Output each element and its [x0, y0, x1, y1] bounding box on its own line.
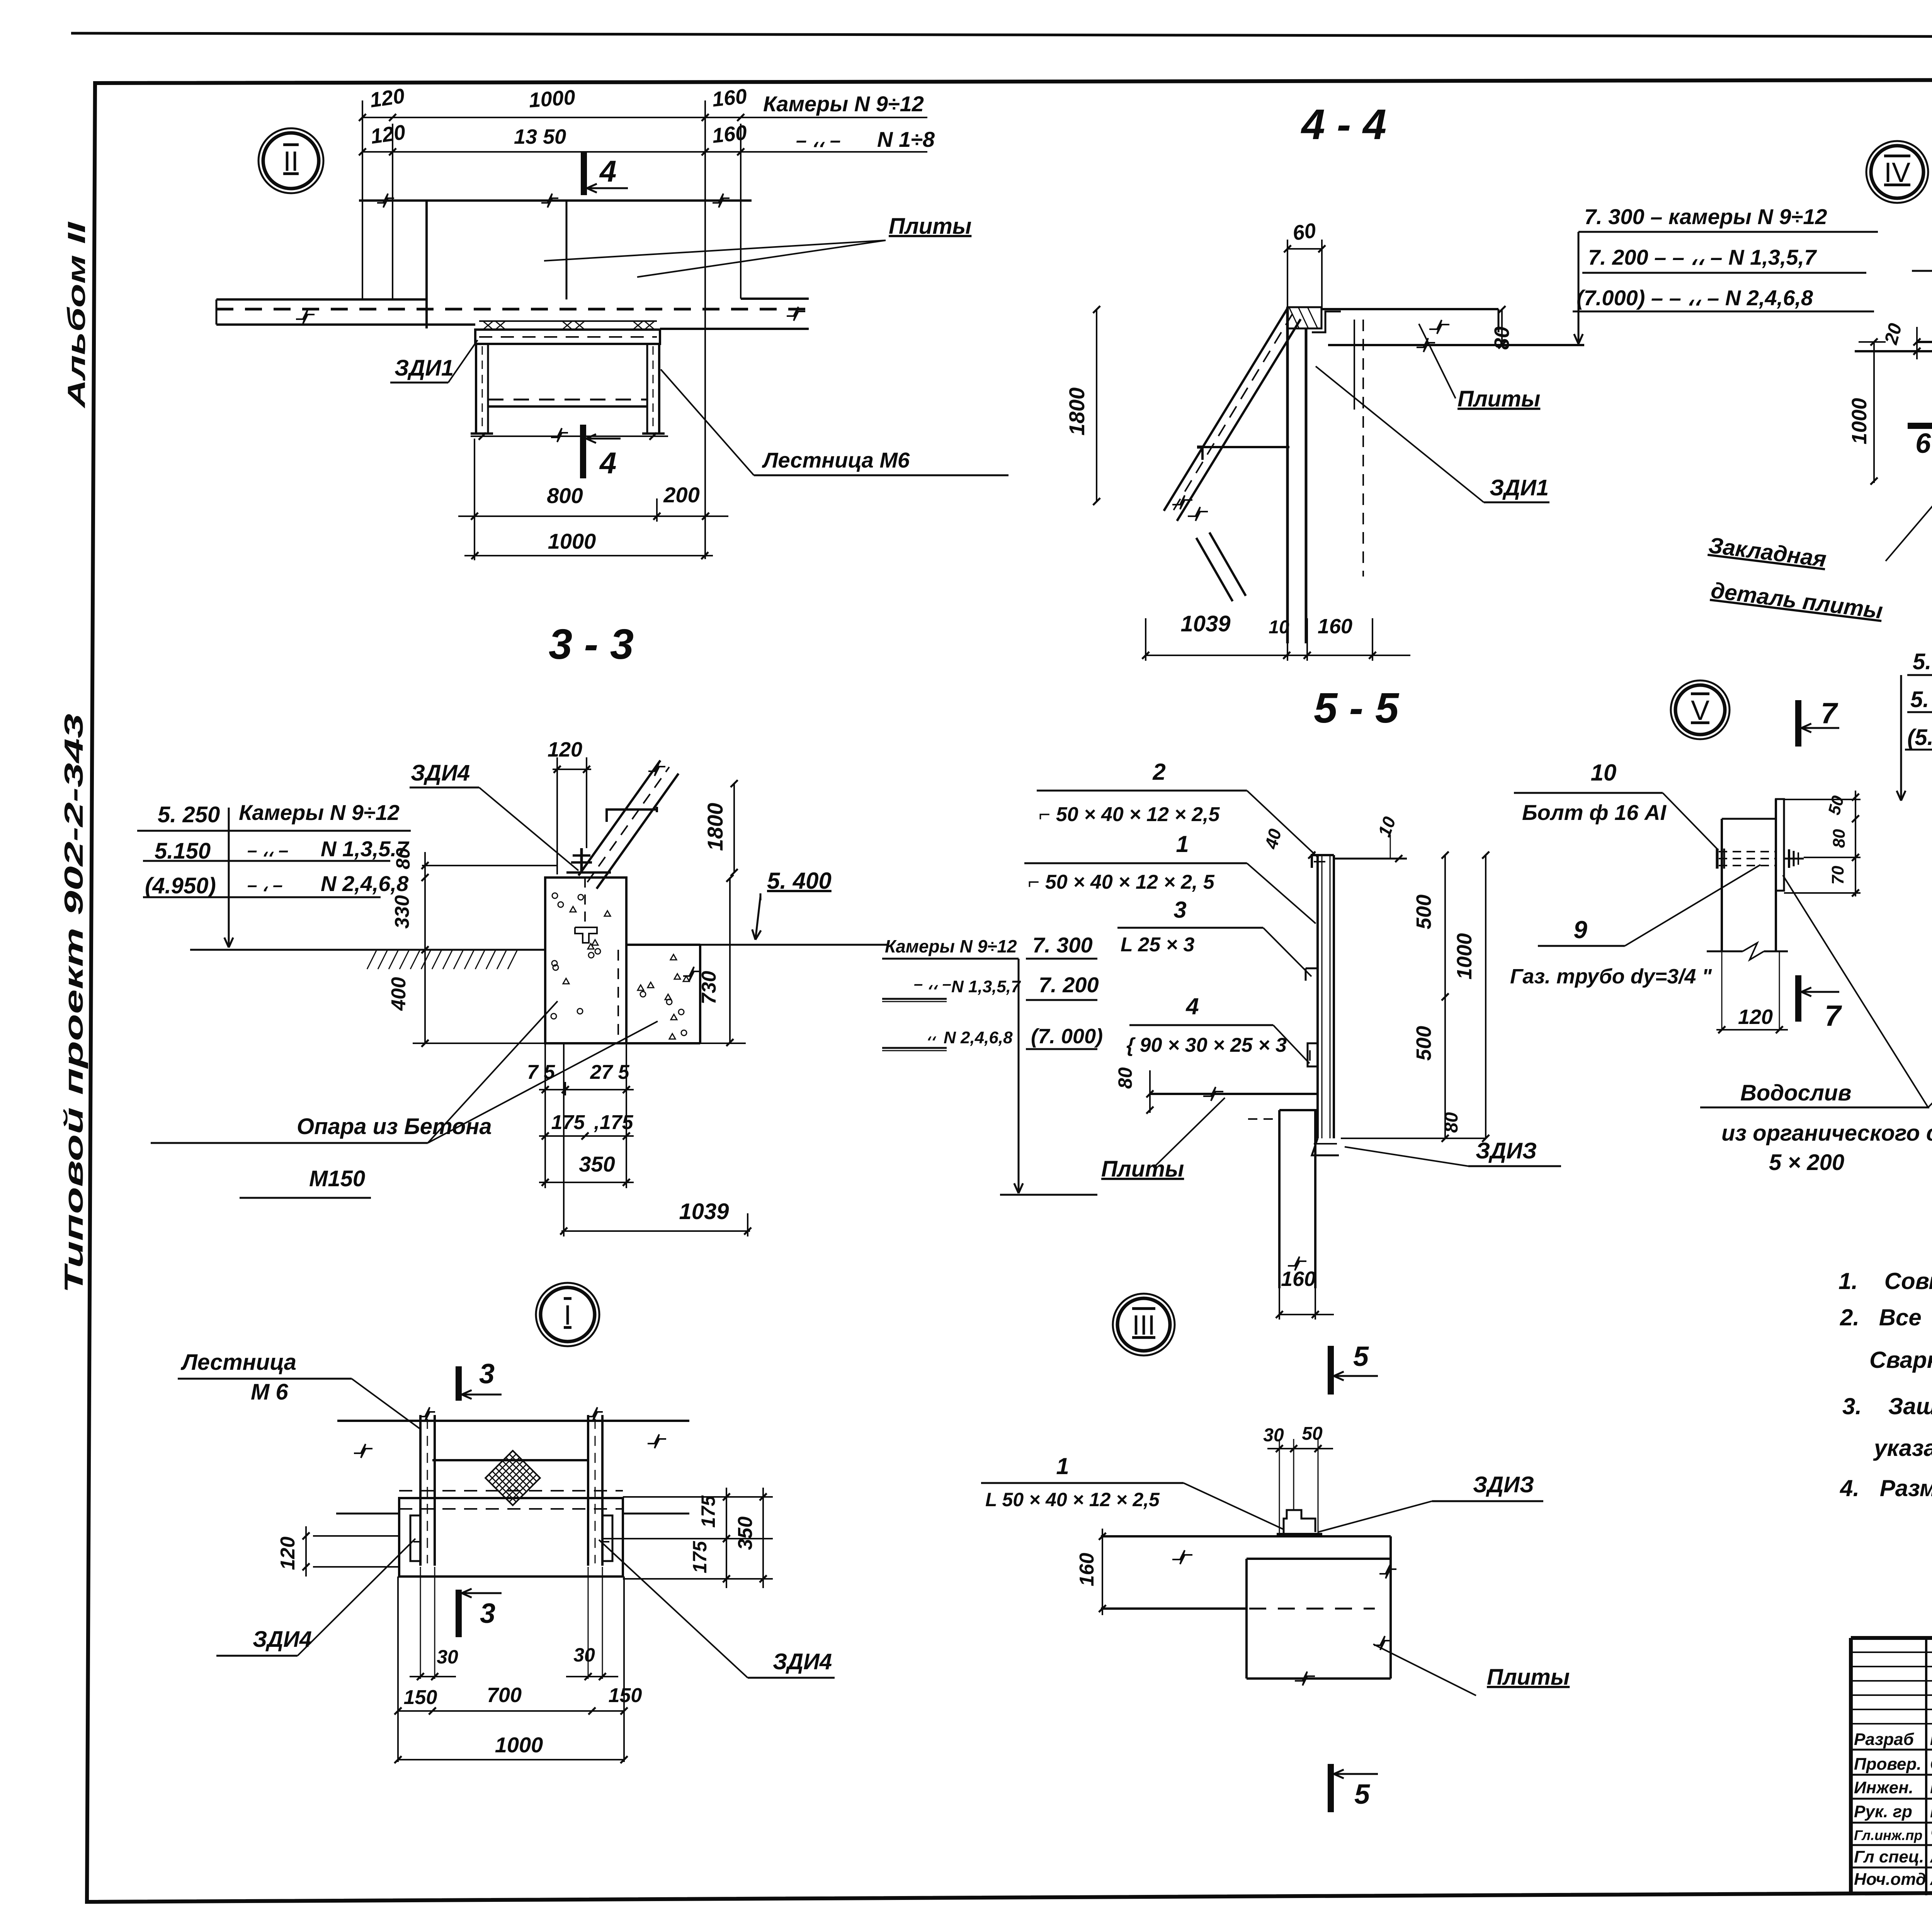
svg-text:2: 2	[1152, 759, 1165, 785]
svg-text:150: 150	[404, 1686, 437, 1709]
svg-text:120: 120	[277, 1537, 299, 1570]
svg-text:ЗДИ1: ЗДИ1	[1490, 475, 1549, 500]
svg-text:⌐ 50 × 40 × 12 × 2, 5: ⌐ 50 × 40 × 12 × 2, 5	[1028, 871, 1215, 893]
svg-text:10: 10	[1269, 617, 1289, 638]
svg-text:150: 150	[609, 1684, 642, 1707]
svg-text:3: 3	[480, 1598, 495, 1629]
svg-text:160: 160	[1318, 615, 1352, 638]
svg-text:10: 10	[1591, 760, 1617, 786]
svg-text:N 1÷8: N 1÷8	[877, 127, 935, 151]
svg-text:2. Все сворные швы h= 3: 2. Все сворные швы h= 3 мм	[1840, 1304, 1932, 1330]
svg-text:Камеры N 9÷12: Камеры N 9÷12	[763, 92, 924, 116]
svg-text:Семенова: Семенова	[1930, 1755, 1932, 1774]
svg-text:7: 7	[1825, 1000, 1842, 1032]
svg-text:30: 30	[573, 1644, 595, 1666]
svg-text:Болт ф 16 АІ: Болт ф 16 АІ	[1522, 800, 1667, 825]
svg-text:400: 400	[388, 977, 410, 1011]
svg-text:1: 1	[1056, 1453, 1069, 1479]
svg-text:1000: 1000	[1453, 933, 1476, 980]
svg-text:7 5: 7 5	[527, 1061, 555, 1083]
svg-text:175: 175	[689, 1541, 711, 1573]
svg-text:N 2,4,6,8: N 2,4,6,8	[321, 871, 409, 896]
svg-text:V: V	[1691, 695, 1709, 726]
svg-text:7. 300: 7. 300	[1032, 933, 1093, 957]
svg-text:Камеры N 9÷12: Камеры N 9÷12	[885, 936, 1017, 956]
svg-text:1800: 1800	[703, 803, 727, 851]
svg-text:(4.950): (4.950)	[145, 873, 216, 898]
svg-text:160: 160	[1281, 1267, 1316, 1291]
svg-text:4: 4	[599, 154, 616, 188]
svg-text:1800: 1800	[1065, 388, 1089, 436]
svg-text:М 6: М 6	[251, 1379, 288, 1405]
svg-text:Типовой проект 902-2-343: Типовой проект 902-2-343	[59, 714, 88, 1293]
svg-text:Чирков: Чирков	[1930, 1825, 1932, 1844]
svg-text:указания на л. КЖ- 7.: указания на л. КЖ- 7.	[1873, 1435, 1932, 1461]
svg-text:Лестница: Лестница	[180, 1350, 296, 1375]
svg-text:Сварку вести электродами: Сварку вести электродами Э-42, ГОСТ 9467…	[1869, 1347, 1932, 1373]
svg-text:1000: 1000	[548, 529, 596, 553]
svg-text:500: 500	[1412, 895, 1435, 929]
svg-text:3: 3	[479, 1359, 495, 1389]
svg-text:5 × 200: 5 × 200	[1769, 1150, 1844, 1175]
svg-text:7. 200 – – ،، – N 1,3,5,7: 7. 200 – – ،، – N 1,3,5,7	[1588, 245, 1817, 269]
svg-text:из органического стекла: из органического стекла	[1721, 1121, 1932, 1146]
svg-text:ЗДИ1: ЗДИ1	[395, 355, 454, 381]
svg-text:1000: 1000	[528, 86, 576, 112]
svg-text:(5.500): (5.500)	[1907, 725, 1932, 750]
svg-text:800: 800	[547, 483, 583, 508]
svg-text:(7.000) – – ،، – N 2,4,6,8: (7.000) – – ،، – N 2,4,6,8	[1577, 286, 1813, 310]
svg-text:Гл спец.: Гл спец.	[1854, 1847, 1924, 1866]
svg-text:350: 350	[734, 1517, 757, 1550]
svg-text:5: 5	[1353, 1341, 1369, 1372]
svg-text:II: II	[283, 146, 299, 177]
svg-text:Гл.инж.пр: Гл.инж.пр	[1854, 1827, 1922, 1843]
svg-text:330: 330	[391, 895, 413, 929]
svg-text:27 5: 27 5	[590, 1061, 629, 1083]
svg-text:3: 3	[1173, 897, 1186, 923]
svg-text:Разраб: Разраб	[1854, 1730, 1915, 1749]
svg-text:80: 80	[1441, 1112, 1462, 1133]
svg-text:N 2,4,6,8: N 2,4,6,8	[944, 1028, 1013, 1047]
svg-text:I: I	[564, 1300, 571, 1331]
svg-text:Плиты: Плиты	[889, 214, 971, 239]
svg-text:80: 80	[392, 848, 414, 869]
svg-text:Гарбуз: Гарбуз	[1930, 1802, 1932, 1821]
svg-text:ЗДИЗ: ЗДИЗ	[1476, 1138, 1537, 1163]
svg-text:Альтшуллер: Альтшуллер	[1930, 1870, 1932, 1889]
svg-text:7. 300 – камеры N 9÷12: 7. 300 – камеры N 9÷12	[1584, 204, 1827, 229]
svg-text:160: 160	[711, 121, 748, 148]
svg-text:13 50: 13 50	[514, 125, 566, 148]
svg-text:Рук. гр: Рук. гр	[1854, 1802, 1912, 1821]
svg-text:5.150: 5.150	[155, 838, 211, 864]
svg-text:1039: 1039	[679, 1199, 729, 1224]
svg-text:160: 160	[711, 85, 748, 111]
svg-text:Водослив: Водослив	[1740, 1080, 1851, 1105]
svg-text:Альбом II: Альбом II	[63, 221, 90, 409]
svg-text:Андрианов: Андрианов	[1930, 1847, 1932, 1866]
svg-text:,175: ,175	[594, 1111, 633, 1134]
svg-text:7. 200: 7. 200	[1039, 973, 1099, 997]
svg-text:80: 80	[1830, 829, 1849, 848]
svg-text:Плиты: Плиты	[1487, 1665, 1570, 1690]
svg-text:120: 120	[1738, 1005, 1773, 1029]
svg-text:5. 700: 5. 700	[1910, 687, 1932, 712]
svg-text:،،: ،،	[927, 1027, 936, 1044]
svg-text:50: 50	[1302, 1423, 1323, 1444]
svg-text:(7. 000): (7. 000)	[1031, 1025, 1103, 1048]
svg-text:6: 6	[1915, 428, 1931, 459]
svg-text:4: 4	[599, 446, 616, 480]
svg-text:60: 60	[1291, 219, 1318, 245]
svg-text:9: 9	[1573, 916, 1587, 944]
svg-text:80: 80	[1114, 1067, 1136, 1089]
svg-text:L 50 × 40 × 12 × 2,5: L 50 × 40 × 12 × 2,5	[985, 1489, 1160, 1510]
svg-text:Петропавловская: Петропавловская	[1930, 1733, 1932, 1748]
svg-text:⌐ 50 × 40 × 12 × 2,5: ⌐ 50 × 40 × 12 × 2,5	[1039, 803, 1220, 826]
svg-text:5 - 5: 5 - 5	[1314, 684, 1400, 732]
svg-text:Плиты: Плиты	[1101, 1156, 1184, 1182]
svg-text:3 - 3: 3 - 3	[549, 621, 634, 668]
svg-text:IV: IV	[1884, 157, 1910, 188]
svg-text:Камеры N 9÷12: Камеры N 9÷12	[239, 800, 400, 825]
svg-text:1000: 1000	[495, 1733, 543, 1757]
svg-text:Провер.: Провер.	[1854, 1755, 1921, 1774]
svg-text:Газ. трубо dy=3/4 ": Газ. трубо dy=3/4 "	[1510, 965, 1712, 988]
svg-text:– ،، –: – ،، –	[796, 129, 841, 151]
svg-text:– ، –: – ، –	[247, 875, 283, 895]
svg-text:ЗДИ4: ЗДИ4	[773, 1649, 832, 1674]
svg-text:Лестница М6: Лестница М6	[762, 448, 910, 472]
svg-text:4. Размеры в скобках для к: 4. Размеры в скобках для камер N 2, 4, 6…	[1840, 1475, 1932, 1501]
svg-text:5: 5	[1354, 1779, 1370, 1810]
svg-text:L 25 × 3: L 25 × 3	[1121, 934, 1194, 956]
svg-text:5. 800: 5. 800	[1913, 649, 1932, 674]
svg-text:5. 400: 5. 400	[767, 868, 832, 894]
svg-text:N 1,3,5,7: N 1,3,5,7	[951, 977, 1021, 996]
svg-text:700: 700	[487, 1684, 522, 1707]
svg-text:30: 30	[1263, 1425, 1284, 1446]
svg-text:120: 120	[368, 84, 406, 112]
svg-text:120: 120	[369, 121, 407, 148]
svg-text:{ 90 × 30 × 25 × 3: { 90 × 30 × 25 × 3	[1126, 1034, 1287, 1056]
svg-text:30: 30	[437, 1646, 458, 1668]
svg-text:200: 200	[663, 483, 699, 507]
svg-text:1039: 1039	[1180, 611, 1230, 636]
svg-text:175: 175	[551, 1111, 585, 1134]
svg-text:5. 250: 5. 250	[158, 802, 220, 827]
svg-text:1. Совместно с данным см.: 1. Совместно с данным см. л.л. КЖ-72÷79.	[1838, 1268, 1932, 1294]
svg-text:Ноч.отд: Ноч.отд	[1854, 1870, 1926, 1889]
svg-text:М150: М150	[309, 1166, 365, 1191]
svg-text:500: 500	[1412, 1026, 1435, 1061]
svg-text:120: 120	[548, 738, 582, 761]
svg-text:ЗДИЗ: ЗДИЗ	[1473, 1472, 1534, 1497]
svg-text:Инжен.: Инжен.	[1854, 1778, 1913, 1797]
svg-text:1000: 1000	[1848, 398, 1871, 444]
svg-text:70: 70	[1828, 866, 1847, 884]
svg-text:350: 350	[579, 1152, 615, 1176]
svg-text:III: III	[1132, 1310, 1155, 1341]
svg-text:3. Защиту изделия от корр: 3. Защиту изделия от коррозии см. общие	[1842, 1393, 1932, 1419]
svg-text:4: 4	[1185, 993, 1199, 1019]
svg-text:– ،، –: – ،، –	[914, 975, 951, 993]
svg-text:Плиты: Плиты	[1458, 386, 1540, 412]
svg-text:175: 175	[697, 1495, 719, 1528]
svg-text:– ،، –: – ،، –	[247, 840, 288, 860]
svg-text:ЗДИ4: ЗДИ4	[411, 760, 470, 786]
svg-text:4 - 4: 4 - 4	[1301, 101, 1386, 148]
svg-text:7: 7	[1821, 697, 1838, 730]
svg-text:ЗДИ4: ЗДИ4	[253, 1627, 312, 1652]
svg-text:160: 160	[1076, 1553, 1098, 1587]
svg-text:1: 1	[1176, 831, 1189, 857]
svg-text:Опара из Бетона: Опара из Бетона	[297, 1114, 492, 1139]
svg-text:730: 730	[698, 971, 720, 1005]
svg-text:Платунина: Платунина	[1930, 1778, 1932, 1797]
